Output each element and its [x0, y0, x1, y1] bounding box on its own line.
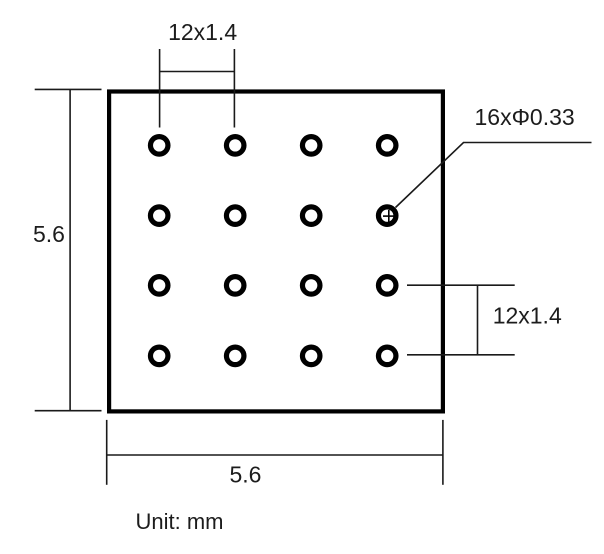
- top dimension line: [160, 71, 235, 73]
- bottom dimension line: [107, 454, 443, 456]
- hole R1C4: [378, 137, 396, 155]
- left dimension tick top: [35, 88, 102, 90]
- leader line to hole R2C4: [396, 143, 592, 208]
- right dimension extension line bottom: [407, 354, 515, 356]
- hole R4C2: [226, 347, 244, 365]
- hole R4C4: [378, 347, 396, 365]
- hole R2C3: [302, 207, 320, 225]
- top dimension extension line left: [159, 49, 161, 128]
- hole R1C2: [226, 137, 244, 155]
- top dimension label 12x1.4: [168, 19, 237, 45]
- hole R1C3: [302, 137, 320, 155]
- bottom dimension extension line right: [442, 420, 444, 485]
- svg-text:16xΦ0.33: 16xΦ0.33: [475, 104, 575, 130]
- hole R1C1: [150, 137, 168, 155]
- hole R3C1: [150, 277, 168, 295]
- left dimension line: [69, 89, 71, 410]
- right dimension label 12x1.4: [493, 303, 562, 329]
- hole R3C4: [378, 277, 396, 295]
- left dimension label 5.6: [33, 221, 65, 247]
- hole R2C4 (leader target with center cross): [378, 207, 396, 225]
- hole R4C3: [302, 347, 320, 365]
- svg-text:12x1.4: 12x1.4: [493, 303, 562, 329]
- hole R2C1: [150, 207, 168, 225]
- hole R3C3: [302, 277, 320, 295]
- hole R4C1: [150, 347, 168, 365]
- plate outline (5.6 x 5.6 square): [109, 92, 443, 412]
- svg-text:12x1.4: 12x1.4: [168, 19, 237, 45]
- svg-text:Unit: mm: Unit: mm: [136, 509, 224, 534]
- bottom dimension extension line left: [106, 420, 108, 485]
- left dimension tick bottom: [35, 410, 102, 412]
- unit note: [136, 509, 224, 534]
- hole callout label 16xΦ0.33: [475, 104, 575, 130]
- top dimension extension line right: [233, 49, 235, 128]
- svg-text:5.6: 5.6: [33, 221, 65, 247]
- right dimension line: [477, 285, 479, 355]
- hole R2C2: [226, 207, 244, 225]
- svg-text:5.6: 5.6: [230, 462, 262, 488]
- hole R3C2: [226, 277, 244, 295]
- bottom dimension label 5.6: [230, 462, 262, 488]
- right dimension extension line top: [407, 284, 515, 286]
